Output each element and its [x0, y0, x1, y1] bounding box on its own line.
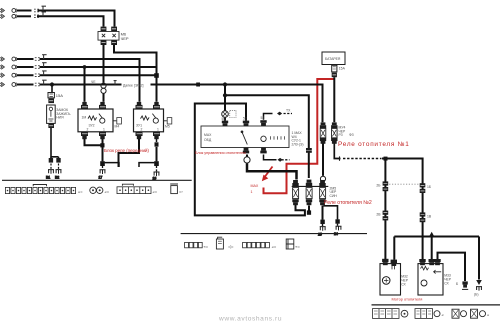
svg-text:«: « — [442, 313, 445, 318]
svg-text:24: 24 — [334, 232, 338, 236]
svg-text:РЗ: РЗ — [339, 133, 343, 137]
svg-text:Мотор отопителя: Мотор отопителя — [392, 297, 423, 302]
svg-text:«=: «= — [105, 189, 110, 194]
svg-text:1Б: 1Б — [427, 185, 432, 189]
svg-text:1M: 1M — [82, 116, 87, 120]
svg-text:БАТАРЕЯ: БАТАРЕЯ — [325, 57, 341, 61]
svg-text:Б: Б — [456, 282, 459, 286]
svg-text:(Б): (Б) — [474, 292, 478, 296]
svg-text:«=: «= — [295, 244, 300, 249]
svg-text:www.avtoshans.ru: www.avtoshans.ru — [218, 315, 282, 322]
svg-text:2Б: 2Б — [376, 183, 381, 187]
svg-text:ТХ: ТХ — [286, 109, 291, 113]
svg-text:52: 52 — [243, 117, 247, 121]
svg-text:«=: «= — [272, 244, 277, 249]
svg-text:53: 53 — [261, 116, 265, 120]
svg-text:СХ: СХ — [444, 281, 449, 285]
svg-text:2ЛЗ-(Э): 2ЛЗ-(Э) — [292, 142, 304, 146]
svg-text:Реле отопителя №1: Реле отопителя №1 — [338, 141, 410, 148]
svg-text:«=: «= — [153, 189, 158, 194]
svg-text:СХ: СХ — [401, 282, 406, 286]
svg-text:ФЗ: ФЗ — [349, 133, 354, 137]
svg-text:15A: 15A — [339, 67, 346, 71]
svg-text:ЧЕР: ЧЕР — [121, 36, 129, 41]
svg-text:«=: «= — [78, 189, 83, 194]
svg-text:ЗУ2: ЗУ2 — [89, 123, 95, 127]
svg-text:◁=: ◁= — [228, 244, 234, 249]
svg-text:Блок управления отопителем: Блок управления отопителем — [195, 151, 246, 155]
svg-text:1В: 1В — [427, 214, 432, 218]
svg-text:НИЯ: НИЯ — [56, 116, 64, 120]
svg-text:17: 17 — [99, 176, 103, 180]
svg-text:50: 50 — [222, 117, 226, 121]
svg-text:ЧЕ: ЧЕ — [91, 80, 96, 84]
svg-text:B1: B1 — [46, 175, 50, 179]
svg-text:2: 2 — [141, 127, 143, 131]
svg-text:B2: B2 — [55, 175, 59, 179]
svg-text:МАХ: МАХ — [251, 184, 259, 188]
svg-text:1: 1 — [157, 127, 159, 131]
svg-text:Реле отопителя №2: Реле отопителя №2 — [324, 200, 372, 206]
svg-text:Далее [ЭП 2]: Далее [ЭП 2] — [123, 84, 144, 88]
svg-text:«=: «= — [204, 244, 209, 249]
svg-text:15A: 15A — [56, 93, 63, 98]
svg-text:Блок реле (передний): Блок реле (передний) — [104, 147, 149, 153]
svg-text:1: 1 — [251, 190, 253, 194]
svg-text:=›: =› — [179, 189, 183, 194]
svg-text:ОБД: ОБД — [204, 138, 212, 142]
svg-text:M5: M5 — [165, 125, 170, 129]
svg-text:2В: 2В — [376, 213, 381, 217]
svg-text:«: « — [487, 313, 490, 318]
svg-text:МАХ: МАХ — [204, 133, 212, 137]
svg-text:1: 1 — [103, 127, 105, 131]
svg-text:M4: M4 — [115, 125, 120, 129]
svg-text:СИН: СИН — [330, 194, 338, 198]
svg-text:2: 2 — [87, 127, 89, 131]
